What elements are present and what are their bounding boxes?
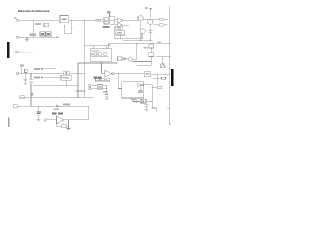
- wire: [164, 19, 167, 21]
- right vertical net: [169, 6, 171, 124]
- component: [162, 77, 166, 79]
- node: [84, 62, 85, 63]
- wire: [156, 56, 170, 58]
- capacitor C1: [44, 23, 49, 26]
- wire: [30, 83, 32, 98]
- svg-text:Ethernet Architecture: Ethernet Architecture: [18, 9, 50, 13]
- stub: [100, 61, 102, 63]
- node: [30, 73, 31, 74]
- node: [30, 97, 31, 98]
- label: [34, 76, 40, 78]
- block B2b: [116, 31, 125, 35]
- inner part: [139, 90, 142, 92]
- resistor R7: [95, 53, 97, 55]
- wire: [61, 72, 85, 74]
- buffer U2: [118, 18, 123, 23]
- node: [136, 43, 137, 44]
- comparator U10: [138, 83, 142, 87]
- node: [151, 61, 152, 62]
- node: [25, 73, 26, 74]
- connector J2: [16, 36, 18, 38]
- resistor R4: [104, 21, 108, 24]
- wire: [152, 108, 156, 112]
- node: [152, 107, 153, 108]
- wire: [139, 87, 141, 93]
- block above wire: [25, 69, 28, 72]
- long vertical net: [84, 20, 86, 63]
- node: [169, 43, 170, 44]
- node: [106, 88, 107, 89]
- node: [108, 45, 109, 46]
- buffer U3: [118, 23, 123, 28]
- wire: [88, 106, 90, 120]
- wire: [150, 57, 152, 66]
- node: [33, 37, 34, 38]
- diode D2: [141, 100, 144, 103]
- wire: [30, 98, 32, 107]
- wire: [146, 100, 152, 102]
- label dark: [93, 76, 96, 78]
- node: [152, 101, 153, 102]
- buffer U11: [57, 105, 60, 108]
- long wire: [20, 97, 94, 99]
- wire: [18, 19, 60, 21]
- ground: [68, 126, 70, 128]
- wire: [17, 105, 89, 107]
- connector J1: [16, 19, 18, 21]
- block U6: [61, 75, 71, 80]
- transistor Q5: [160, 57, 165, 68]
- ground: [37, 120, 41, 122]
- feedback resistor R12: [62, 125, 67, 128]
- wire: [153, 24, 159, 26]
- wire: [115, 33, 142, 39]
- transformer T1: [110, 17, 115, 25]
- transistor Q3: [141, 29, 146, 34]
- wire: [132, 98, 140, 102]
- label: [103, 26, 110, 28]
- node: [152, 87, 153, 88]
- capacitor C6: [63, 72, 66, 75]
- crystal block B3: [90, 49, 112, 61]
- wire: [18, 36, 56, 38]
- node: [157, 78, 158, 79]
- label dark: [52, 112, 57, 114]
- wire: [164, 24, 167, 26]
- node: [136, 43, 137, 44]
- wire: [151, 84, 153, 108]
- wire: [114, 26, 116, 39]
- wire: [65, 80, 67, 86]
- wire: [102, 86, 122, 89]
- label: [158, 42, 161, 44]
- label: [103, 91, 108, 93]
- node: [169, 56, 170, 57]
- node: [118, 88, 119, 89]
- node: [21, 73, 22, 74]
- label: [20, 64, 24, 66]
- resistor R11: [149, 53, 154, 57]
- component on bottom wire: [13, 105, 17, 108]
- node: [101, 62, 102, 63]
- arrow to bus: [108, 44, 110, 49]
- node: [33, 20, 34, 21]
- wire: [156, 78, 158, 84]
- block B9: [140, 99, 146, 103]
- end tick: [169, 123, 171, 125]
- capacitor C8 polarized: [38, 106, 40, 111]
- resistor R8: [104, 53, 107, 55]
- capacitor C10: [145, 103, 149, 109]
- tick: [167, 107, 170, 109]
- transistor Q4: [128, 57, 132, 61]
- wire: [19, 72, 61, 74]
- label near J1: [14, 18, 17, 19]
- stub: [94, 46, 107, 49]
- inner wire: [91, 56, 109, 58]
- node: [84, 20, 85, 21]
- wire: [122, 58, 137, 60]
- block B2a: [116, 26, 122, 29]
- wire: [76, 90, 85, 92]
- node: [30, 106, 31, 107]
- label: [144, 47, 148, 49]
- wire: [84, 63, 86, 98]
- wire: [21, 67, 23, 74]
- label: [63, 103, 70, 105]
- node: [140, 40, 141, 41]
- node: [84, 73, 85, 74]
- wire: [150, 8, 152, 17]
- connector J3: [96, 19, 98, 21]
- label: [131, 98, 137, 100]
- wire: [140, 21, 142, 40]
- connector J4: [159, 18, 164, 21]
- transistor Q1: [138, 16, 143, 21]
- big block B6: [122, 82, 144, 98]
- node: [66, 85, 67, 86]
- block U9: [144, 72, 151, 77]
- capacitor C5 polarized: [29, 73, 33, 79]
- wire: [117, 74, 119, 89]
- cluster wires: [108, 19, 117, 25]
- faint net label and wire: [15, 51, 19, 53]
- resistor R16: [98, 87, 102, 89]
- wire: [106, 86, 108, 95]
- wire: [136, 43, 138, 59]
- wire: [32, 20, 34, 37]
- connector J8: [89, 85, 91, 87]
- wire: [143, 19, 159, 21]
- connector J6: [16, 72, 18, 74]
- bus B: [109, 42, 170, 44]
- component: [157, 86, 161, 89]
- node: [71, 28, 72, 29]
- node: [38, 106, 39, 107]
- resistor R3: [104, 18, 108, 21]
- node: [64, 25, 65, 26]
- node: [106, 85, 107, 86]
- capacitor C2: [149, 31, 153, 32]
- op-amp U7: [57, 116, 64, 124]
- ground: [145, 109, 149, 111]
- crystal Y1: [99, 53, 102, 55]
- label: [35, 23, 41, 25]
- wire: [123, 24, 129, 26]
- wire: [67, 120, 69, 126]
- ground: [25, 37, 29, 42]
- resistor R14: [101, 79, 105, 81]
- power flag: [145, 7, 148, 9]
- label VCC: [30, 34, 36, 36]
- wire: [47, 119, 57, 121]
- bottom-left small rotated text: [8, 117, 10, 127]
- diode D1: [123, 57, 126, 60]
- transistor Q2: [148, 19, 153, 24]
- junction label: [30, 93, 32, 96]
- wire: [132, 61, 151, 63]
- node: [84, 97, 85, 98]
- node: [77, 73, 78, 74]
- node: [84, 90, 85, 91]
- resistor R1: [40, 32, 45, 36]
- node: [71, 20, 72, 21]
- resistor R2: [46, 32, 51, 36]
- ground: [24, 83, 27, 84]
- node: [77, 85, 78, 86]
- wire: [150, 48, 152, 53]
- wire: [44, 68, 56, 70]
- arrow head: [56, 36, 59, 38]
- arrow: [41, 68, 45, 71]
- connector J5: [159, 24, 164, 27]
- right rotated part-number text: [171, 69, 173, 86]
- inverter U8: [105, 70, 112, 77]
- feed wire to crystal block: [85, 45, 109, 47]
- node: [77, 97, 78, 98]
- wire: [44, 77, 61, 79]
- resistor R9: [118, 57, 122, 61]
- resistor R10: [149, 45, 154, 48]
- regulator U1: [60, 16, 68, 23]
- resistor R13: [96, 79, 100, 81]
- wire: [109, 14, 111, 17]
- left rotated doc-number text: [7, 42, 9, 58]
- node: [150, 40, 151, 41]
- wire: [91, 86, 102, 89]
- wire: [152, 87, 157, 89]
- wire: [151, 74, 170, 78]
- resistor R15: [98, 85, 102, 87]
- wire: [68, 19, 95, 21]
- long wire: [34, 85, 78, 87]
- wire below block: [78, 62, 118, 64]
- vertical into gate: [102, 63, 105, 74]
- connector J7: [44, 119, 46, 121]
- node: [118, 73, 119, 74]
- label: [54, 108, 60, 110]
- wire tap under U1: [65, 20, 72, 33]
- node: [84, 45, 85, 46]
- feedback wire: [56, 123, 62, 127]
- arrow: [41, 76, 45, 79]
- capacitor C7: [67, 72, 70, 75]
- wire: [150, 24, 152, 40]
- node: [100, 62, 101, 63]
- capacitor C11: [135, 100, 136, 103]
- wire: [114, 73, 144, 75]
- node: [152, 43, 153, 44]
- wire: [153, 77, 162, 79]
- vertical net: [77, 63, 79, 98]
- label: [34, 68, 40, 70]
- capacitor C9: [105, 94, 109, 96]
- capacitor C4: [24, 73, 27, 83]
- label VDD: [107, 11, 111, 13]
- wire: [64, 119, 89, 121]
- wire: [137, 64, 151, 66]
- bus A: [123, 40, 153, 42]
- input block: [20, 96, 25, 99]
- wire: [144, 83, 152, 85]
- wire: [123, 19, 138, 21]
- wire: [101, 19, 105, 21]
- capacitor C3: [92, 53, 93, 56]
- ground: [105, 98, 109, 99]
- resistor R17: [106, 79, 109, 81]
